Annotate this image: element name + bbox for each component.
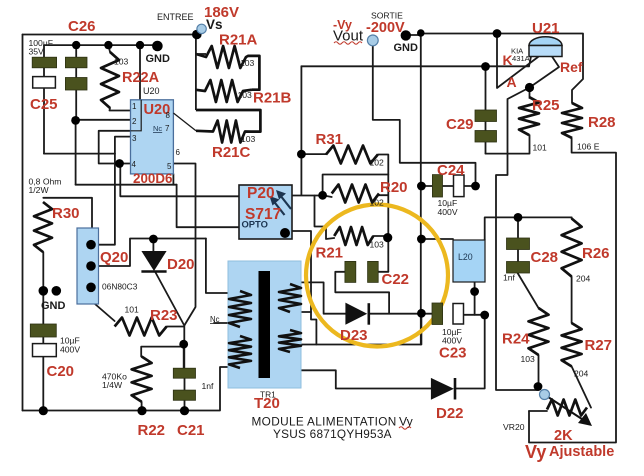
wire C26 column stubs — [43, 45, 45, 154]
svg-text:L20: L20 — [458, 252, 473, 262]
diode D22 — [431, 378, 455, 400]
capacitor C23 — [432, 303, 443, 325]
resistor R22 — [132, 357, 152, 402]
wire R22 bottom lead — [141, 402, 143, 411]
transformer winding upper-right — [279, 284, 301, 312]
potentiometer VR20 wiper arrow — [545, 395, 592, 426]
transistor Q20 body — [77, 228, 99, 304]
wire D20 anode stub — [152, 239, 154, 251]
wire U20 inner box net to pin4 — [99, 100, 142, 164]
svg-text:Nc: Nc — [210, 315, 220, 324]
svg-text:8: 8 — [166, 111, 171, 120]
svg-text:3: 3 — [132, 134, 137, 143]
wire R24 bottom lead — [538, 355, 540, 387]
wire U21 Ref lead — [530, 57, 560, 88]
transistor Q20 pins — [86, 240, 96, 250]
resistor R20 — [332, 185, 379, 203]
wire C28 top lead — [517, 217, 519, 261]
wire U20 corner stub — [172, 174, 174, 185]
svg-text:C20: C20 — [47, 363, 75, 380]
svg-text:GND: GND — [41, 300, 66, 312]
wire R31 wrap horizontal — [323, 175, 389, 196]
wire Q20 drain to D20 frame — [91, 239, 206, 267]
svg-text:A: A — [507, 74, 517, 90]
wire source bus y184.7 — [76, 184, 177, 186]
wire pin2 net — [76, 120, 131, 185]
svg-text:102: 102 — [370, 158, 385, 168]
resistor R21A — [196, 46, 259, 90]
svg-text:D22: D22 — [436, 405, 464, 422]
wire R22A top lead — [108, 45, 110, 52]
wire GND dot link — [406, 34, 421, 36]
capacitor C29 — [475, 110, 497, 122]
svg-text:103: 103 — [521, 354, 536, 364]
wire pin5 down to C21 node — [173, 164, 195, 326]
capacitor C20 — [30, 324, 56, 337]
resistor R21 — [334, 227, 373, 245]
svg-text:R21C: R21C — [212, 144, 251, 161]
svg-text:Vy: Vy — [525, 442, 546, 462]
wire D22 cathode up to C23 right — [455, 315, 485, 389]
transformer T20 body — [228, 261, 301, 388]
svg-text:C28: C28 — [531, 249, 559, 266]
resistor R30 — [34, 202, 52, 252]
wire A-node drop rail — [496, 88, 539, 391]
svg-text:U21: U21 — [532, 20, 560, 37]
wire transformer Nc stub — [214, 322, 229, 324]
wire R30 top to Q20 — [43, 198, 92, 229]
svg-text:R28: R28 — [588, 114, 616, 131]
wire R21 right lead — [373, 236, 387, 238]
wire L20 top to C28 bus — [485, 217, 572, 240]
svg-text:R24: R24 — [502, 331, 530, 348]
wire R22A bottom lead to pin1 — [110, 108, 131, 111]
wire L20 bottom lead — [474, 282, 476, 315]
svg-text:Vs: Vs — [206, 17, 223, 32]
svg-text:C29: C29 — [446, 116, 474, 133]
transformer T20 core bar — [259, 271, 271, 378]
svg-text:U20: U20 — [143, 86, 160, 96]
capacitor C28 — [507, 238, 530, 250]
svg-text:C22: C22 — [382, 271, 410, 288]
svg-text:OPTO: OPTO — [242, 219, 268, 230]
potentiometer VR20 track — [547, 400, 587, 416]
wire transformer bottom to D22 — [301, 370, 431, 388]
wire C28 to R24 diagonal — [518, 273, 539, 308]
wire C24 leads — [421, 185, 475, 187]
wire R31 left lead — [301, 153, 326, 155]
resistor R26 — [562, 219, 582, 277]
svg-text:GND: GND — [394, 42, 419, 54]
wire L20 left lead — [421, 238, 453, 240]
svg-text:R22A: R22A — [122, 70, 160, 86]
resistor R23 — [115, 318, 167, 336]
svg-text:Nc: Nc — [153, 124, 162, 133]
wire C29 branch — [485, 67, 487, 154]
svg-text:1: 1 — [132, 102, 137, 111]
wire R21A left lead — [196, 53, 206, 55]
wire rail2 to U20 top — [139, 45, 141, 100]
svg-text:R21A: R21A — [219, 32, 258, 49]
svg-text:6: 6 — [176, 148, 181, 157]
svg-text:R25: R25 — [532, 97, 560, 114]
wire D23 cathode to C23 — [369, 313, 433, 315]
svg-text:101: 101 — [533, 143, 548, 153]
svg-text:102: 102 — [370, 198, 385, 208]
wire U21 K lead — [529, 57, 531, 67]
svg-text:VR20: VR20 — [503, 422, 525, 432]
wire R31 right wrap — [378, 155, 389, 272]
svg-text:106 E: 106 E — [577, 142, 600, 152]
resistor R22A — [101, 52, 119, 108]
svg-text:35V: 35V — [29, 47, 45, 57]
capacitor C24 — [432, 175, 442, 197]
svg-text:7: 7 — [165, 124, 170, 133]
svg-text:R27: R27 — [585, 337, 613, 354]
wire top rail to Vs — [23, 34, 197, 36]
wire R22 top lead — [141, 347, 184, 357]
svg-text:400V: 400V — [438, 207, 458, 217]
svg-text:103: 103 — [241, 134, 256, 144]
wire R20 leads — [323, 195, 388, 197]
wire D20 cathode diagonal to C21 node — [155, 272, 184, 326]
svg-text:C25: C25 — [30, 96, 58, 113]
transformer winding upper-left — [229, 291, 251, 327]
wire bottom rail — [23, 367, 230, 411]
node Vs dot — [192, 30, 202, 40]
wire P20 bottom-right down — [292, 231, 316, 345]
svg-text:YSUS 6871QYH953A: YSUS 6871QYH953A — [273, 427, 392, 441]
resistor R21B — [196, 80, 252, 102]
wire D20 frame right to transformer — [206, 239, 229, 294]
svg-text:1/4W: 1/4W — [102, 380, 123, 390]
resistor R24 — [529, 308, 549, 355]
svg-text:R23: R23 — [150, 307, 178, 324]
svg-text:Q20: Q20 — [100, 249, 128, 266]
resistor R21C — [196, 110, 261, 143]
opto-coupler P20 body — [239, 185, 292, 239]
svg-text:T20: T20 — [254, 395, 280, 412]
wire R27 bottom diagonal — [572, 366, 591, 407]
wire Vout node path to C24 — [373, 46, 476, 186]
wire K bus — [301, 65, 529, 67]
wire C25 bus to pin3 rail — [44, 153, 115, 155]
svg-text:R26: R26 — [582, 245, 610, 262]
svg-text:SORTIE: SORTIE — [371, 11, 403, 21]
resistor R25 — [519, 97, 539, 135]
svg-text:204: 204 — [576, 274, 591, 284]
wire top rail right to R28 — [421, 34, 583, 104]
svg-text:D23: D23 — [340, 327, 368, 344]
wire P20 top-right pin and rail up to K bus — [292, 66, 323, 195]
svg-text:2: 2 — [132, 117, 137, 126]
wire R28 bottom to right border rail — [529, 138, 616, 443]
wire cap column2 stubs — [75, 45, 77, 120]
capacitor C21 — [173, 368, 195, 378]
transformer winding lower-left — [229, 336, 251, 368]
svg-text:C26: C26 — [68, 18, 96, 35]
svg-text:1nf: 1nf — [503, 273, 516, 283]
svg-text:2K: 2K — [554, 428, 573, 444]
wire C22 right plate to R21 node: included in vert above — [378, 271, 388, 273]
svg-text:103: 103 — [238, 90, 253, 100]
wire second top rail (C26 bus to GND) — [44, 44, 157, 46]
wire R30 bottom to GND — [42, 252, 44, 291]
svg-text:R22: R22 — [138, 422, 166, 439]
svg-text:R21: R21 — [316, 245, 344, 262]
inductor L20 body — [453, 240, 485, 282]
node VR20 blue terminal — [540, 390, 550, 400]
resistor R28 — [562, 103, 582, 138]
svg-text:431A: 431A — [512, 54, 531, 63]
svg-text:R21B: R21B — [253, 90, 292, 107]
svg-text:400V: 400V — [60, 345, 80, 355]
svg-text:GND: GND — [146, 53, 171, 65]
wire C23 right lead — [464, 314, 485, 316]
squiggle under Vout — [334, 42, 362, 44]
svg-text:103: 103 — [240, 58, 255, 68]
svg-text:P20: P20 — [247, 185, 275, 202]
svg-text:C21: C21 — [177, 422, 205, 439]
svg-text:R30: R30 — [52, 205, 80, 222]
wire coil stub upper-right bottom — [302, 311, 311, 313]
wire R21 left vertical sub — [195, 35, 197, 111]
wire branch to R21 left — [315, 196, 335, 240]
GND terminals mid-left — [39, 286, 49, 296]
svg-text:K: K — [503, 52, 513, 68]
svg-text:Ajustable: Ajustable — [549, 444, 614, 460]
svg-text:-200V: -200V — [366, 20, 405, 36]
wire GND vertical rail — [420, 33, 422, 345]
capacitor C25 plates — [65, 57, 87, 68]
wire R26 top/bottom — [571, 217, 573, 323]
wire Q20 source to R23 — [95, 304, 115, 321]
svg-text:R20: R20 — [380, 179, 408, 196]
GND terminal top-left — [152, 41, 163, 52]
svg-text:ENTREE: ENTREE — [157, 12, 194, 22]
wire U20 pin8 diagonal to R21C — [173, 113, 196, 131]
wire U21 A lead — [497, 34, 538, 89]
wire VR20 left lead — [529, 410, 547, 412]
resistor R31 — [326, 146, 378, 164]
wire C21 leads — [183, 344, 186, 411]
wire C29 bottom bus to R25 — [486, 135, 530, 154]
svg-text:5: 5 — [167, 162, 172, 171]
svg-text:200D6: 200D6 — [133, 171, 172, 186]
transformer winding lower-right — [279, 330, 301, 352]
wire GND to C20 — [42, 291, 44, 411]
wire pin3 to Q20 gate — [91, 137, 131, 245]
svg-text:Ref: Ref — [560, 59, 583, 75]
svg-text:103: 103 — [114, 57, 129, 67]
diode D20 — [141, 251, 166, 272]
svg-text:101: 101 — [125, 305, 140, 315]
svg-text:06N80C3: 06N80C3 — [102, 282, 138, 292]
wire secondary to GND rail — [301, 313, 421, 344]
shunt regulator U21 body — [529, 37, 562, 57]
wire R25 top lead — [529, 88, 531, 98]
wire to P20 bottom-left pin — [177, 185, 239, 228]
wire R23 right lead — [167, 326, 185, 368]
diode D23 — [345, 303, 368, 325]
svg-text:204: 204 — [574, 369, 589, 379]
wire left border rail — [22, 35, 24, 411]
svg-text:R31: R31 — [316, 131, 344, 148]
svg-text:4: 4 — [132, 160, 137, 169]
svg-text:400V: 400V — [442, 336, 462, 346]
P20 corner dot — [280, 228, 290, 238]
opto P20 LED arrows — [270, 190, 292, 215]
wire pin4 to P20 top-left pin — [120, 164, 238, 197]
wire C22 left plate loop — [335, 272, 389, 314]
svg-text:D20: D20 — [167, 256, 195, 273]
svg-text:1nf: 1nf — [202, 381, 215, 391]
capacitor C26 plates — [32, 57, 56, 68]
yellow highlight circle — [306, 205, 448, 347]
svg-text:103: 103 — [370, 240, 385, 250]
resistor R27 — [562, 323, 582, 366]
node SORTIE blue terminal — [367, 35, 378, 46]
svg-text:C24: C24 — [437, 162, 465, 179]
GND terminal top-right — [401, 30, 411, 40]
svg-text:C23: C23 — [439, 345, 467, 362]
node ENTREE blue terminal — [197, 24, 206, 33]
svg-text:1/2W: 1/2W — [29, 185, 50, 195]
capacitor C22 — [345, 261, 356, 282]
IC U20 body — [131, 100, 174, 174]
wire D23 anode lead and link to coil top — [294, 282, 346, 313]
